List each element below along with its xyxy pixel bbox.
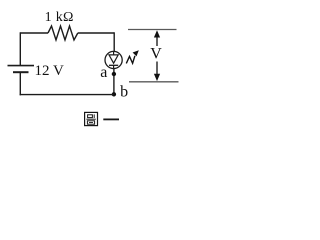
measurement top reference line xyxy=(128,29,177,31)
node b junction dot xyxy=(112,92,116,96)
svg-text:12 V: 12 V xyxy=(35,63,64,79)
resistor R 1 kΩ zigzag xyxy=(48,26,78,40)
device U1 circle (diode under test) xyxy=(105,51,122,68)
svg-text:V: V xyxy=(150,46,162,63)
wire from device to node a and node b xyxy=(113,69,115,95)
diode cathode lead inside circle xyxy=(113,65,115,68)
battery B1 bottom plate (-) xyxy=(13,71,29,73)
wire top-left horizontal (battery top to resistor) xyxy=(20,32,48,34)
down arrow of V dimension xyxy=(156,62,158,75)
node a junction dot xyxy=(112,72,116,76)
wire top-right horizontal (resistor to right corner) xyxy=(78,32,114,34)
breakdown zigzag arrow beside device xyxy=(126,56,135,64)
caption 一 (one) drawn glyph xyxy=(103,118,119,120)
up arrow of V dimension xyxy=(156,37,158,47)
svg-text:1 kΩ: 1 kΩ xyxy=(45,10,74,25)
battery B1 top plate (+) xyxy=(8,65,35,67)
svg-text:a: a xyxy=(100,64,107,81)
diode triangle xyxy=(109,55,118,63)
wire left vertical (battery - terminal to bottom corner) xyxy=(19,72,21,95)
wire bottom horizontal (to node b) xyxy=(20,94,114,96)
svg-text:b: b xyxy=(120,84,128,101)
wire right vertical (top corner down to device circle) xyxy=(113,32,115,51)
diode cathode bar xyxy=(109,64,118,66)
caption 圖 (figure) drawn glyph xyxy=(85,112,98,125)
diode anode lead inside circle xyxy=(113,52,115,55)
measurement bottom reference line xyxy=(129,81,179,83)
wire left vertical (top corner to battery + terminal) xyxy=(19,32,21,65)
